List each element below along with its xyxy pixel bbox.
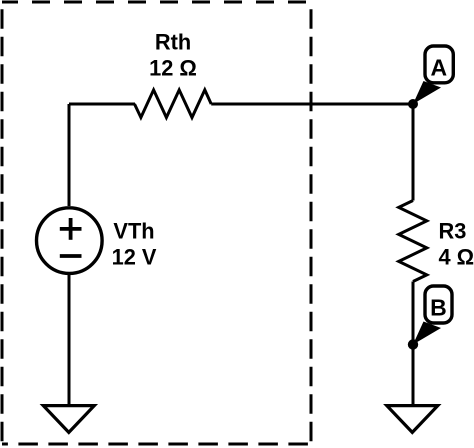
svg-text:R3: R3 [439,219,467,244]
svg-text:Rth: Rth [155,29,191,54]
ground symbol left [43,406,94,433]
wire from left corner to resistor Rth [69,103,135,106]
node B balloon pointer [413,322,441,345]
wire from voltage source bottom to ground [68,274,71,407]
svg-text:4 Ω: 4 Ω [439,244,474,269]
Thevenin equivalent dashed boundary box [2,2,311,444]
node A balloon [425,46,453,83]
label R3 4 Ohm [439,219,474,270]
svg-text:B: B [430,294,447,320]
svg-text:12 V: 12 V [112,245,157,270]
wire from resistor R3 to node B and ground [412,282,415,407]
node A balloon pointer [413,81,441,104]
ground symbol right [387,406,438,433]
node B balloon [425,286,452,323]
node B junction dot [408,339,418,349]
label VTh 12 V [112,218,157,269]
voltage source U1 VTh [37,208,103,274]
svg-text:A: A [430,55,447,81]
wire from resistor Rth to node A [211,103,413,106]
svg-text:12 Ω: 12 Ω [149,55,197,80]
label Rth 12 Ohm [149,29,197,80]
svg-text:VTh: VTh [113,218,154,243]
node A junction dot [408,99,418,109]
wire from node A down to resistor R3 [412,104,415,201]
wire from voltage source top to left corner [68,104,71,206]
resistor Rth [135,90,212,118]
resistor R3 [399,201,427,282]
